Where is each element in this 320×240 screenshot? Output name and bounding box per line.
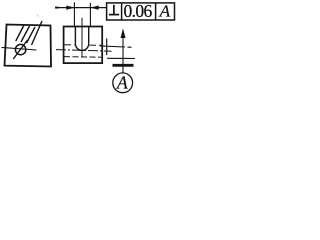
datum circle <box>113 73 133 93</box>
extension line left <box>73 2 75 26</box>
hole horizontal center line <box>2 47 37 50</box>
hole center line <box>81 18 83 58</box>
svg-text:0.06: 0.06 <box>123 1 152 21</box>
blind hole U bottom <box>75 44 88 51</box>
hatch line 2 <box>21 26 30 42</box>
hidden line (bottom of cross hole) <box>64 56 101 59</box>
hatch line 3 <box>27 27 36 43</box>
hatch line 4 <box>32 21 43 45</box>
perpendicularity symbol <box>109 5 119 15</box>
slash through hole circle <box>13 40 27 59</box>
axis line (datum A axis) <box>56 50 112 52</box>
blind hole left wall <box>74 27 76 44</box>
datum leader arrow (up) <box>121 28 126 38</box>
svg-text:A: A <box>116 73 128 93</box>
datum leader line <box>122 33 124 73</box>
upper extension line to datum <box>100 46 125 47</box>
lower extension line to datum <box>107 57 135 59</box>
dimension line end blob <box>55 7 59 9</box>
left square (side view) <box>5 25 52 67</box>
right arrowhead <box>90 6 99 10</box>
extension line right <box>89 3 91 27</box>
hidden line (top of cross hole) <box>65 44 75 46</box>
svg-text:A: A <box>159 2 171 21</box>
stray scan speck <box>37 15 39 17</box>
left arrowhead <box>66 6 75 10</box>
dimension line <box>55 7 107 9</box>
feature control frame <box>107 3 175 20</box>
datum thick bar <box>113 64 134 67</box>
hole circle (side view) <box>15 44 25 54</box>
middle square (front view) <box>64 27 103 64</box>
vertical tick right of square <box>106 39 108 56</box>
hatch line 1 <box>16 25 24 41</box>
blind hole right wall <box>88 27 90 44</box>
